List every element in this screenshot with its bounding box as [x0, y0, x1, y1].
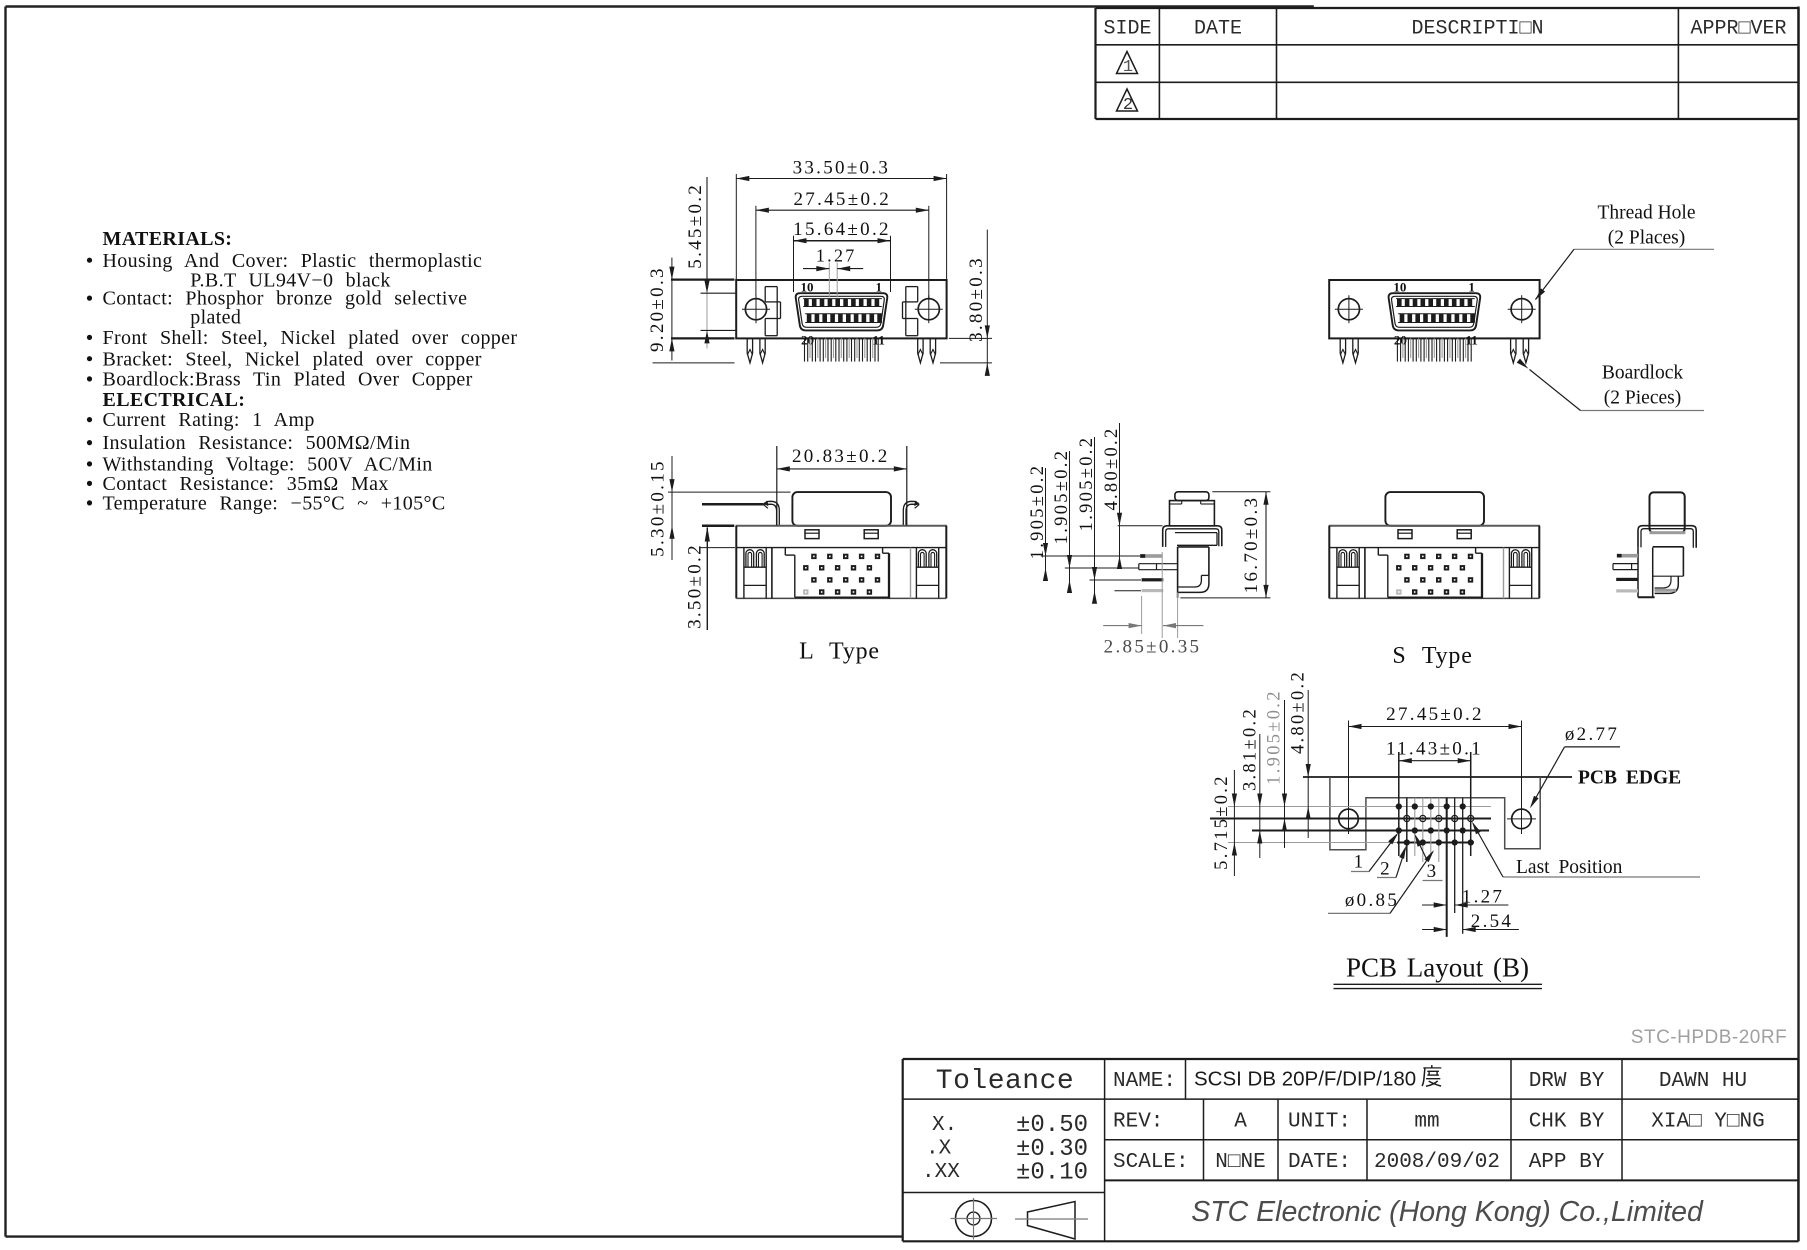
latch window right [1457, 530, 1471, 539]
name row [1113, 1065, 1747, 1093]
revision triangle 1 [1117, 52, 1138, 78]
svg-text:Temperature Range: −55°C ~: Temperature Range: −55°C ~ +105°C [103, 493, 446, 515]
thread hole right [915, 295, 943, 323]
svg-text:mm: mm [1414, 1111, 1439, 1134]
svg-text:.X: .X [926, 1138, 952, 1161]
label pcb edge [1578, 767, 1681, 788]
revision table [1096, 8, 1799, 119]
svg-text:REV:: REV: [1113, 1111, 1163, 1134]
svg-text:4.80±0.2: 4.80±0.2 [1102, 426, 1122, 510]
side view right boardlock leg [1638, 547, 1655, 597]
side view right pins [1613, 554, 1638, 593]
svg-text:S Type: S Type [1392, 643, 1472, 669]
dim 11.43±0.1 [1386, 738, 1483, 798]
boardlock fork right [1511, 338, 1529, 362]
pcb pin holes [1396, 803, 1474, 845]
svg-text:STC-HPDB-20RF: STC-HPDB-20RF [1631, 1027, 1787, 1048]
svg-text:A: A [1234, 1111, 1247, 1134]
svg-text:15.64±0.2: 15.64±0.2 [793, 219, 891, 240]
svg-text:DAWN HU: DAWN HU [1659, 1070, 1747, 1093]
title block frame [903, 1059, 1799, 1241]
pcb footprint outline [1330, 777, 1540, 850]
DIP pins below body [805, 338, 879, 361]
rev row [1113, 1111, 1765, 1134]
svg-text:2.54: 2.54 [1471, 911, 1513, 932]
svg-text:20.83±0.2: 20.83±0.2 [792, 446, 890, 467]
svg-text:3.50±0.2: 3.50±0.2 [684, 543, 705, 629]
company name [1191, 1196, 1704, 1228]
svg-text:5.30±0.15: 5.30±0.15 [647, 459, 668, 557]
last position label [1472, 822, 1700, 878]
svg-text:PCB EDGE: PCB EDGE [1578, 767, 1681, 788]
svg-text:2.85±0.35: 2.85±0.35 [1104, 636, 1202, 657]
pin 3 label [1415, 834, 1443, 882]
dim 27.45±0.2 [756, 189, 929, 300]
side mating cap [1170, 492, 1215, 526]
svg-text:5.715±0.2: 5.715±0.2 [1212, 774, 1232, 870]
svg-text:Insulation Resistance: 500MΩ: Insulation Resistance: 500MΩ/Min [103, 432, 411, 454]
svg-text:3.81±0.2: 3.81±0.2 [1241, 707, 1261, 791]
tolerance table text [922, 1066, 1088, 1187]
contact cavity [785, 548, 889, 599]
svg-text:10: 10 [1393, 280, 1406, 295]
label thread hole [1535, 203, 1714, 301]
svg-text:1.905±0.2: 1.905±0.2 [1265, 689, 1285, 785]
svg-text:DESCRIPTI□N: DESCRIPTI□N [1411, 18, 1543, 41]
svg-text:X.: X. [932, 1114, 957, 1137]
svg-text:Front Shell: Steel, Nickel: Front Shell: Steel, Nickel plated over c… [103, 327, 518, 349]
svg-text:2: 2 [1380, 858, 1392, 879]
svg-text:1.27: 1.27 [1462, 886, 1504, 907]
rear body flange [736, 526, 947, 599]
contact row upper (pins 1-10) [1396, 299, 1475, 307]
svg-text:CHK BY: CHK BY [1529, 1111, 1605, 1134]
pin 2 label [1377, 846, 1406, 880]
boardlock fork right [918, 338, 936, 362]
label boardlock [1517, 359, 1704, 411]
svg-text:plated: plated [190, 307, 241, 329]
svg-text:33.50±0.3: 33.50±0.3 [793, 157, 891, 178]
pcb layout title [1334, 953, 1543, 989]
latch window left [1398, 530, 1412, 539]
boardlock spring left [1337, 548, 1359, 599]
boardlock fork left [747, 338, 765, 362]
boardlock spring left [744, 548, 766, 599]
DIP pins below body [1397, 338, 1471, 361]
svg-text:(2 Pieces): (2 Pieces) [1604, 388, 1681, 409]
side view right tower [1650, 492, 1685, 532]
svg-text:XIA□ Y□NG: XIA□ Y□NG [1651, 1111, 1764, 1134]
dim 20.83±0.2 [777, 446, 907, 526]
svg-text:3: 3 [1427, 861, 1439, 882]
bracket outline right [903, 287, 918, 336]
mating face [1385, 492, 1484, 526]
svg-text:ELECTRICAL:: ELECTRICAL: [103, 389, 246, 411]
dim 3.50±0.2 [684, 526, 735, 630]
svg-text:Last Position: Last Position [1516, 857, 1623, 878]
svg-text:NAME:: NAME: [1113, 1070, 1176, 1093]
svg-text:STC Electronic (Hong Kong) Co.: STC Electronic (Hong Kong) Co.,Limited [1191, 1196, 1704, 1228]
svg-text:1.905±0.2: 1.905±0.2 [1077, 436, 1097, 532]
inner walls [772, 548, 911, 599]
connector body front outline [1329, 280, 1539, 338]
contact row upper (pins 1-10) [803, 299, 882, 307]
boardlock fork left [1340, 338, 1358, 362]
pcb left stacked dims [1212, 670, 1311, 876]
boardlock spring right [1509, 548, 1531, 599]
svg-text:(2 Places): (2 Places) [1608, 228, 1685, 249]
svg-text:SCSI DB 20P/F/DIP/180: SCSI DB 20P/F/DIP/180 [1194, 1068, 1416, 1091]
svg-text:±0.10: ±0.10 [1016, 1160, 1088, 1187]
svg-text:2: 2 [1123, 96, 1133, 115]
pcb edge line [1303, 776, 1572, 778]
revision triangle 2 [1117, 89, 1138, 115]
svg-text:DATE:: DATE: [1288, 1151, 1351, 1174]
svg-text:UNIT:: UNIT: [1288, 1111, 1351, 1134]
contact squares grid [803, 554, 880, 595]
dim 15.64±0.2 [793, 219, 891, 292]
svg-text:.XX: .XX [922, 1161, 960, 1184]
pin number labels [1393, 280, 1477, 348]
mating face [792, 492, 891, 526]
svg-text:10: 10 [801, 280, 814, 295]
clip tip reference line [702, 503, 764, 506]
svg-text:Toleance: Toleance [936, 1066, 1074, 1097]
svg-text:2008/09/02: 2008/09/02 [1374, 1151, 1500, 1174]
D-sub shell outer [1389, 293, 1481, 330]
contact row lower (pins 11-20) [1398, 314, 1475, 323]
part number [1631, 1027, 1787, 1048]
svg-text:1: 1 [1354, 851, 1366, 872]
contact squares grid [1396, 554, 1473, 595]
scale row [1113, 1151, 1605, 1174]
svg-text:L Type: L Type [799, 639, 880, 665]
svg-text:Boardlock: Boardlock [1602, 363, 1683, 384]
svg-text:11.43±0.1: 11.43±0.1 [1386, 738, 1483, 759]
materials and electrical notes [87, 228, 517, 514]
svg-text:N□NE: N□NE [1215, 1151, 1265, 1174]
svg-text:ø0.85: ø0.85 [1345, 890, 1399, 911]
side view right body [1653, 547, 1684, 594]
contact row lower (pins 11-20) [805, 314, 882, 323]
stacked dims 1.905 x3 and 4.80 [1028, 423, 1162, 604]
svg-text:APPR□VER: APPR□VER [1690, 18, 1786, 41]
svg-text:9.20±0.3: 9.20±0.3 [647, 266, 668, 352]
dim 3.80±0.3 [940, 230, 992, 376]
svg-text:SCALE:: SCALE: [1113, 1151, 1189, 1174]
svg-text:Current Rating: 1 Amp: Current Rating: 1 Amp [103, 409, 315, 431]
svg-text:Bracket: Steel, Nickel plat: Bracket: Steel, Nickel plated over coppe… [103, 348, 482, 370]
dim 5.30±0.15 [647, 456, 790, 560]
svg-text:1.905±0.2: 1.905±0.2 [1052, 449, 1072, 545]
svg-text:1: 1 [875, 280, 882, 295]
latch window left [805, 530, 819, 539]
mount hole right [1507, 721, 1536, 835]
D-sub shell outer [796, 293, 888, 330]
svg-text:Boardlock:Brass Tin Plated: Boardlock:Brass Tin Plated Over Copper [103, 369, 473, 391]
pcb row lines [1210, 807, 1491, 843]
svg-text:APP BY: APP BY [1529, 1151, 1605, 1174]
svg-text:1.905±0.2: 1.905±0.2 [1028, 464, 1048, 560]
dim 1.27 front [803, 245, 863, 297]
dim 9.20±0.3 [647, 258, 734, 363]
dim 16.70±0.3 [1180, 492, 1270, 598]
latch window right [864, 530, 878, 539]
pin number labels [801, 280, 885, 348]
connector body front outline [736, 280, 946, 338]
svg-text:DATE: DATE [1194, 18, 1242, 41]
contact cavity [1378, 548, 1482, 599]
rear body flange [1329, 526, 1540, 599]
svg-text:16.70±0.3: 16.70±0.3 [1241, 496, 1262, 594]
side boardlock clip [1163, 526, 1222, 547]
svg-text:PCB Layout (B): PCB Layout (B) [1346, 953, 1529, 983]
svg-text:3.80±0.3: 3.80±0.3 [966, 256, 987, 342]
svg-text:5.45±0.2: 5.45±0.2 [685, 183, 706, 269]
thread hole left [1335, 295, 1363, 323]
svg-text:1.27: 1.27 [816, 245, 857, 265]
pin 1 label [1351, 833, 1398, 873]
side clip right [903, 501, 919, 526]
svg-text:DRW BY: DRW BY [1529, 1070, 1605, 1093]
svg-text:1: 1 [1123, 58, 1133, 77]
svg-text:Thread Hole: Thread Hole [1598, 203, 1696, 224]
boardlock spring right [916, 548, 938, 599]
svg-text:MATERIALS:: MATERIALS: [103, 228, 233, 250]
inner walls [1365, 548, 1504, 599]
svg-text:±0.50: ±0.50 [1016, 1112, 1088, 1139]
svg-text:27.45±0.2: 27.45±0.2 [793, 189, 891, 210]
mount hole left [1334, 721, 1363, 835]
side clip left [763, 501, 779, 526]
svg-text:ø2.77: ø2.77 [1565, 724, 1619, 745]
side body block [1178, 547, 1209, 598]
pcb column lines [1399, 752, 1471, 937]
side view right clip [1638, 526, 1696, 548]
dim 1.27 pcb [1422, 886, 1508, 907]
svg-text:SIDE: SIDE [1103, 18, 1151, 41]
label dia 0.85 [1328, 850, 1434, 913]
dim 33.50±0.3 [736, 157, 946, 279]
thread hole left [742, 295, 770, 323]
svg-text:4.80±0.2: 4.80±0.2 [1289, 670, 1309, 754]
svg-text:1: 1 [1468, 280, 1475, 295]
dim 2.54 pcb [1422, 911, 1519, 932]
kanji du (degree) [1422, 1065, 1441, 1086]
projection symbol [951, 1198, 1089, 1240]
dim 5.45±0.2 [685, 177, 735, 349]
svg-text:Contact: Phosphor bronze go: Contact: Phosphor bronze gold selective [103, 288, 468, 310]
L Type label [799, 639, 880, 665]
side pins [1139, 552, 1178, 638]
label dia 2.77 [1530, 724, 1620, 809]
svg-text:27.45±0.2: 27.45±0.2 [1386, 704, 1484, 725]
dim 2.85±0.35 [1103, 623, 1203, 657]
S Type label [1392, 643, 1472, 669]
dim 27.45±0.2 pcb [1349, 704, 1522, 729]
thread hole right [1508, 295, 1536, 323]
bracket outline left [765, 287, 780, 336]
